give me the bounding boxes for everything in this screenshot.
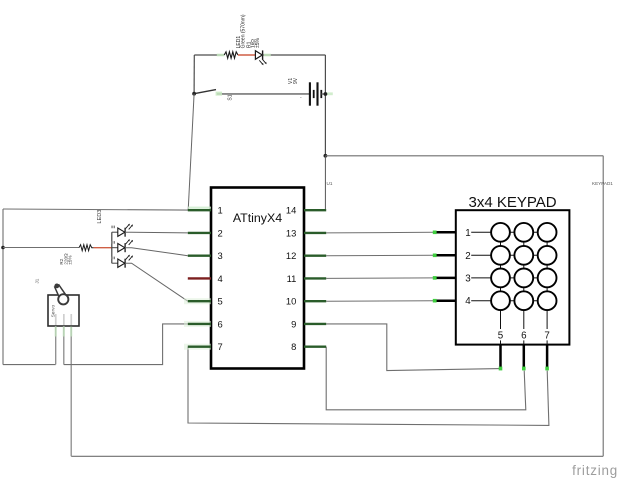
- wire: top rail right segment: [263, 54, 326, 56]
- pin 12 stub: [304, 254, 326, 256]
- battery right net highlight: [326, 92, 333, 95]
- svg-text:13: 13: [286, 227, 296, 238]
- svg-text:9: 9: [291, 318, 296, 329]
- keypad stub pin1: [434, 231, 456, 234]
- wire: LED top out to pin2: [125, 231, 188, 234]
- wire: pin7 down: [188, 347, 549, 426]
- svg-text:7: 7: [544, 331, 549, 342]
- wire: servo right pin vertical: [70, 326, 72, 456]
- svg-text:S1: S1: [227, 94, 233, 100]
- wire: LED anode bus: [111, 232, 113, 263]
- wire: LED bottom out to pin5: [125, 263, 188, 301]
- svg-text:fritzing: fritzing: [572, 463, 618, 478]
- switch S1 lever: [194, 90, 216, 94]
- keypad buttons: [491, 223, 556, 310]
- battery V1 left lead: [217, 93, 310, 95]
- svg-text:8: 8: [291, 341, 296, 352]
- keypad stub pin4: [434, 299, 456, 302]
- wire: top horizontal rail to right edge: [325, 155, 603, 157]
- junction left rail tap: [1, 246, 5, 250]
- servo left pin: [55, 326, 57, 364]
- svg-text:±5%: ±5%: [255, 37, 261, 48]
- svg-text:10: 10: [286, 296, 296, 307]
- wire: right vertical rail: [602, 156, 604, 457]
- pin 14 stub: [304, 209, 326, 211]
- battery V1 plates: [310, 82, 321, 105]
- pin 8 stub: [304, 346, 326, 348]
- svg-text:12: 12: [286, 250, 296, 261]
- wire: pin10 to keypad 4: [326, 300, 433, 303]
- svg-text:U1: U1: [327, 181, 333, 186]
- wire: switch junction up to top rail: [193, 55, 195, 94]
- LED D3 middle: [111, 239, 133, 252]
- wire: pin1 slanted riser: [188, 94, 194, 210]
- servo J1 body: [48, 295, 79, 326]
- pin 5 halo: [184, 298, 211, 304]
- svg-text:6: 6: [218, 318, 223, 329]
- keypad stub pin6: [523, 345, 526, 369]
- battery V1 right lead: [321, 93, 325, 95]
- keypad KEYPAD1 body: [456, 210, 570, 344]
- svg-text:9V: 9V: [293, 77, 299, 84]
- svg-text:1: 1: [218, 205, 223, 216]
- wire: rail down to IC pin14: [324, 156, 326, 210]
- LED D: LED1: [255, 50, 266, 65]
- pin1 highlight: [188, 207, 211, 209]
- wire: left rail bottom to servo left pin: [3, 364, 56, 366]
- svg-text:6: 6: [521, 331, 527, 342]
- svg-text:±5%: ±5%: [68, 255, 73, 264]
- pin 2 stub: [188, 232, 211, 234]
- pin 7 halo: [184, 344, 211, 350]
- pin 4 stub red: [188, 277, 211, 279]
- svg-text:4: 4: [465, 296, 471, 307]
- keypad pin labels 1-4: [462, 226, 471, 307]
- wire: orange net R2 to LED bus: [94, 247, 112, 249]
- wire: pin8 to keypad pin6: [326, 347, 526, 410]
- svg-text:3: 3: [218, 250, 223, 261]
- keypad stub pin2: [434, 254, 456, 257]
- pin 7 stub: [188, 346, 211, 348]
- keypad pin labels 5-7: [496, 329, 553, 342]
- keypad column lines: [501, 232, 548, 344]
- svg-text:Servo: Servo: [50, 305, 56, 318]
- wire: red net R1 to LED1: [238, 54, 255, 56]
- LED D4 bottom: [111, 255, 133, 268]
- pin 1 stub: [188, 209, 211, 211]
- wire: pin12 to keypad 2: [326, 254, 433, 256]
- wire: left rail horizontal pin1: [3, 209, 188, 210]
- LED D2 top: [111, 224, 133, 237]
- svg-text:3: 3: [465, 273, 471, 284]
- wire: left rail vertical: [2, 209, 4, 365]
- pin numbers left: [218, 205, 223, 353]
- svg-text:LED3: LED3: [97, 210, 103, 224]
- pin 13 stub: [304, 232, 326, 234]
- servo middle pin: [63, 326, 65, 365]
- keypad stub pin3: [434, 277, 456, 280]
- svg-text:14: 14: [286, 205, 296, 216]
- wire: servo middle pin to pin6: [64, 324, 188, 365]
- pin 6 stub: [188, 323, 211, 325]
- svg-text:J1: J1: [35, 278, 40, 283]
- pin 11 stub: [304, 277, 326, 279]
- servo horn: [54, 284, 68, 305]
- keypad green tips left: [433, 231, 437, 303]
- pin 6 halo: [184, 321, 211, 327]
- wire: top rail left segment to resistor R1: [194, 54, 224, 56]
- keypad row lines: [471, 232, 547, 300]
- svg-text:2: 2: [465, 251, 470, 262]
- svg-text:ATtinyX4: ATtinyX4: [233, 211, 282, 225]
- svg-text:1: 1: [465, 228, 470, 239]
- wire: right vertical battery rail: [324, 55, 326, 156]
- wire: pin9 to keypad pin5: [326, 324, 500, 371]
- IC U1 ATtinyX4 body: [211, 188, 304, 369]
- wire: bottom rail: [71, 455, 603, 457]
- pin 10 stub: [304, 300, 326, 302]
- switch S1 contact highlight: [216, 92, 222, 96]
- keypad stub pin5: [499, 345, 502, 369]
- servo pin highlights: [55, 327, 57, 337]
- pin 9 stub: [304, 323, 326, 325]
- resistor R1: [224, 52, 238, 58]
- keypad green tips bottom: [499, 367, 549, 371]
- pin numbers right: [286, 205, 296, 353]
- svg-text:4: 4: [218, 273, 223, 284]
- wire: pin11 to keypad 3: [326, 277, 433, 280]
- svg-text:5: 5: [498, 331, 504, 342]
- servo pin pads: [55, 314, 57, 325]
- wire: pin13 to keypad 1: [326, 231, 433, 234]
- svg-text:11: 11: [287, 273, 297, 284]
- keypad stub pin7: [546, 345, 549, 369]
- junction node main rail: [324, 154, 328, 158]
- junction battery node: [324, 92, 328, 96]
- pin 5 stub: [188, 300, 211, 302]
- resistor R2: [79, 245, 94, 251]
- wire: LED mid out to pin3: [125, 248, 188, 256]
- net highlight after LED1: [264, 54, 271, 57]
- junction switch node: [192, 92, 196, 96]
- svg-text:KEYPAD1: KEYPAD1: [592, 181, 613, 186]
- pin 3 stub: [188, 254, 211, 256]
- svg-text:5: 5: [218, 296, 223, 307]
- svg-text:2: 2: [218, 227, 223, 238]
- wire: left rail to R2: [3, 247, 79, 249]
- svg-text:3x4 KEYPAD: 3x4 KEYPAD: [469, 194, 557, 211]
- net highlight before R1: [217, 54, 225, 57]
- svg-text:7: 7: [218, 341, 223, 352]
